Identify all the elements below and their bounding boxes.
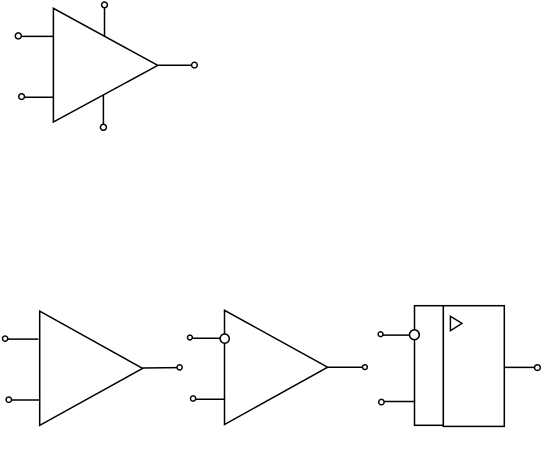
wire U3 inverting input lead	[192, 337, 220, 339]
inverting bubble on U3 input	[220, 334, 229, 343]
amplifier symbol triangle inside U4	[450, 316, 462, 330]
wire U1 non-inverting input lead	[21, 35, 54, 37]
wire U3 output lead	[328, 366, 363, 368]
amplifier U4 right box section	[443, 306, 504, 427]
node U1 input 2 terminal	[19, 94, 25, 100]
wire U4 input 2 lead	[384, 401, 415, 403]
wire U2 input 1 lead	[8, 338, 39, 340]
node U1 output terminal	[192, 62, 198, 68]
node U1 V+ terminal	[102, 2, 108, 8]
node U3 input 1 terminal	[188, 335, 193, 340]
wire U4 output lead	[504, 366, 534, 368]
op-amp U3 triangle body	[225, 310, 328, 424]
node U4 output terminal	[535, 365, 541, 371]
node U1 input 1 terminal	[15, 33, 21, 39]
node U2 output terminal	[177, 365, 182, 370]
wire U1 output lead	[158, 64, 192, 66]
node U3 output terminal	[363, 365, 368, 370]
wire U2 input 2 lead	[11, 399, 40, 401]
wire U1 negative supply pin V-	[102, 95, 104, 124]
node U2 input 1 terminal	[3, 336, 8, 341]
op-amp U1 triangle body	[53, 8, 157, 122]
inverting bubble on U4 input	[410, 330, 420, 340]
wire U3 input 2 lead	[196, 398, 226, 400]
node U2 input 2 terminal	[6, 397, 11, 402]
wire U1 positive supply pin V+	[104, 8, 106, 37]
op-amp U2 triangle body	[40, 311, 143, 425]
node U1 V- terminal	[100, 124, 106, 130]
wire U2 output lead	[143, 367, 177, 369]
node U3 input 2 terminal	[191, 396, 196, 401]
node U4 input 1 terminal	[378, 332, 383, 337]
wire U1 inverting input lead	[24, 96, 54, 98]
wire U4 inverting input lead	[383, 334, 410, 336]
amplifier U4 left box section	[415, 306, 444, 426]
node U4 input 2 terminal	[379, 399, 384, 404]
